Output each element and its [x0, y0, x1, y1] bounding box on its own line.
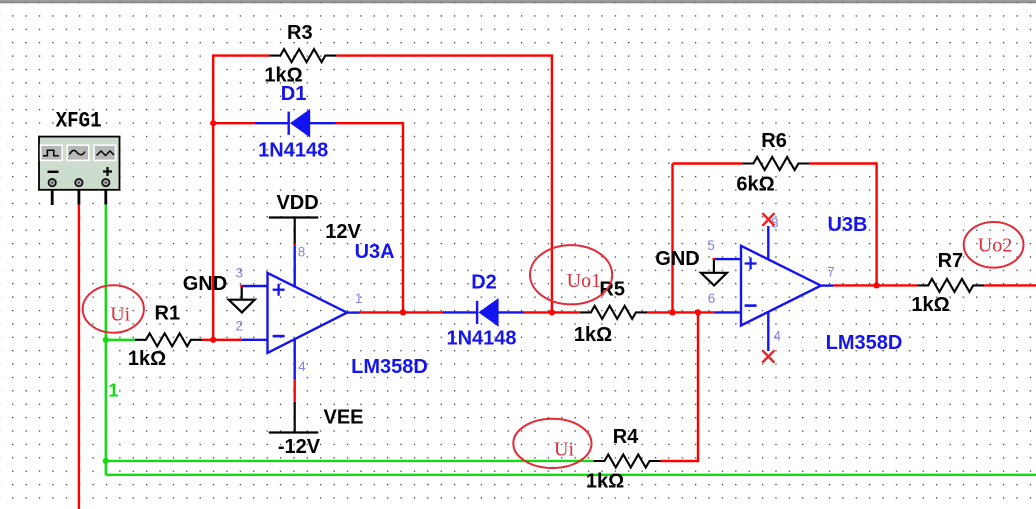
junction green at R1 [103, 337, 109, 343]
wire R7 right to edge [984, 284, 1036, 286]
junction green at net1/R4 branch [103, 458, 109, 464]
svg-text:R5: R5 [599, 278, 625, 300]
wire R6 right horizontal [809, 162, 876, 164]
svg-text:LM358D: LM358D [351, 356, 428, 378]
junction U3B output node [874, 282, 880, 288]
svg-text:-12V: -12V [278, 436, 321, 458]
ground symbol at U3B non-inverting input [655, 248, 727, 285]
wire XFG1 minus terminal down [78, 205, 80, 509]
wire XFG1 plus terminal down (green net 1) [105, 205, 107, 475]
wire feedback vertical left (R3/D1 to inverting input) [212, 56, 214, 340]
wire green stub to R1 [106, 339, 135, 341]
wire R4 right and up to minus node [661, 312, 699, 461]
svg-text:1: 1 [355, 291, 363, 306]
junction R6 tap [669, 309, 675, 315]
function generator XFG1 [39, 108, 120, 205]
svg-text:XFG1: XFG1 [56, 108, 102, 133]
no-connect X on U3B pin 4 [762, 350, 774, 362]
svg-text:3: 3 [235, 265, 243, 280]
svg-text:12V: 12V [325, 221, 361, 243]
wire D1 right to corner [336, 122, 403, 124]
svg-text:VEE: VEE [323, 406, 363, 428]
wire R6 left vertical [671, 164, 673, 313]
junction D1 left [210, 120, 216, 126]
svg-text:Uo2: Uo2 [978, 235, 1012, 257]
svg-text:GND: GND [183, 273, 227, 295]
svg-text:Uo1: Uo1 [567, 270, 601, 292]
net label ellipse Uo1 [530, 245, 612, 304]
resistor R3 [264, 22, 336, 87]
VEE rail of U3A [269, 380, 364, 458]
svg-text:LM358D: LM358D [826, 332, 903, 354]
junction Uo1 node [549, 309, 555, 315]
net label ellipse Ui (left) [83, 285, 144, 332]
svg-text:R1: R1 [155, 302, 181, 324]
wire R5 right to U3B minus input [646, 311, 714, 313]
ground symbol at U3A non-inverting input [183, 273, 255, 312]
junction R1 / inverting input [210, 337, 216, 343]
net label ellipse Uo2 [964, 222, 1024, 268]
svg-text:7: 7 [827, 264, 835, 279]
svg-text:1kΩ: 1kΩ [586, 471, 624, 493]
svg-text:6: 6 [708, 291, 716, 306]
diode D1 [255, 83, 336, 161]
wire U3B output to R7 [833, 284, 917, 286]
svg-text:R7: R7 [938, 250, 964, 272]
wire U3A output to D2 [360, 311, 445, 313]
resistor R6 [736, 130, 809, 196]
wire R6 right vertical down to U3B output [875, 162, 877, 285]
op-amp U3A [240, 241, 428, 380]
svg-text:1: 1 [109, 381, 119, 401]
svg-text:1N4148: 1N4148 [446, 327, 516, 349]
diode D2 [443, 271, 524, 349]
svg-text:1kΩ: 1kΩ [911, 294, 949, 316]
net label ellipse Ui (bottom) [513, 419, 591, 468]
svg-text:4: 4 [773, 328, 781, 343]
svg-text:U3A: U3A [355, 241, 395, 263]
wire D1 corner down to output node [402, 122, 404, 312]
wire upper green horizontal to R4 [106, 460, 594, 462]
wire D1 left [213, 122, 255, 124]
wire R1 red segment [202, 339, 242, 341]
no-connect X on U3B pin 8 [762, 213, 774, 226]
wire lower green horizontal [106, 474, 1036, 476]
svg-text:D1: D1 [281, 83, 307, 105]
wire R6 left horizontal [673, 162, 743, 164]
svg-text:5: 5 [707, 238, 715, 253]
svg-text:Ui: Ui [554, 439, 574, 461]
svg-text:R6: R6 [761, 130, 787, 152]
junction R4 tap [695, 309, 701, 315]
wire D2 right to R5 [524, 311, 580, 313]
svg-text:U3B: U3B [827, 214, 867, 236]
svg-text:6kΩ: 6kΩ [736, 174, 774, 196]
svg-text:D2: D2 [471, 271, 497, 293]
svg-text:Ui: Ui [110, 303, 130, 325]
wire R3 right to corner [336, 54, 552, 56]
wire R3 left [212, 54, 269, 56]
resistor R4 [586, 426, 661, 492]
svg-text:2: 2 [235, 319, 243, 334]
op-amp U3B [712, 214, 902, 354]
resistor R1 [128, 302, 202, 370]
svg-text:8: 8 [298, 244, 306, 259]
VDD rail of U3A [269, 192, 362, 246]
svg-text:1kΩ: 1kΩ [574, 324, 612, 346]
svg-text:R3: R3 [287, 22, 313, 44]
svg-text:VDD: VDD [276, 192, 318, 214]
svg-text:R4: R4 [613, 426, 639, 448]
resistor R7 [911, 250, 984, 316]
svg-text:1kΩ: 1kΩ [128, 348, 166, 370]
svg-text:1N4148: 1N4148 [258, 140, 328, 162]
junction U3A output node [400, 309, 406, 315]
svg-text:4: 4 [298, 359, 306, 374]
wire R3 corner down to Uo1 node [551, 54, 553, 312]
resistor R5 [574, 278, 647, 345]
svg-text:GND: GND [655, 248, 699, 270]
